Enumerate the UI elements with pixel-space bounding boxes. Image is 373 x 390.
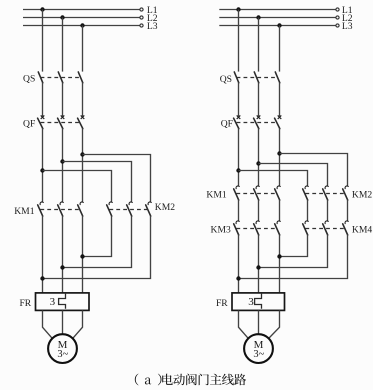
breaker QF (right) pole 2 — [254, 115, 261, 128]
wire right phase C drop to QS — [279, 26, 281, 72]
svg-text:3~: 3~ — [57, 349, 68, 360]
thermal overload relay FR (left) body — [36, 293, 90, 311]
node left L1 supply terminal — [140, 8, 143, 11]
wire left phase A QF to contacts — [42, 128, 44, 202]
mechanical link QS (left) — [41, 77, 81, 79]
contactor KM3 main contact pole 1 — [234, 221, 240, 235]
wire left QS to QF — [82, 82, 84, 116]
wire left phase C QF to contacts — [82, 128, 84, 202]
wire right FR to motor phase B — [258, 310, 260, 334]
wire right between contact rows x=347.5 — [347, 200, 349, 221]
wire left phase A drop to QS — [42, 10, 44, 72]
wire right reverse contact 2 return to phase B — [259, 235, 328, 268]
breaker QF (left) pole 2 — [58, 115, 65, 128]
mechanical link KM3 — [236, 228, 277, 230]
junction right L3 tap — [277, 23, 281, 27]
junction right L1 tap — [236, 7, 240, 11]
svg-text:3~: 3~ — [253, 349, 264, 360]
contactor KM1 main contact pole 2 — [58, 202, 64, 216]
svg-text:KM3: KM3 — [211, 225, 231, 236]
mechanical link KM2 — [305, 193, 345, 195]
wire right phase A QF to contacts — [238, 128, 240, 186]
wire right L1 phase rail — [219, 9, 335, 11]
contactor KM1 main contact pole 1 — [38, 202, 44, 216]
contactor KM2 main contact pole 3 — [146, 202, 152, 216]
wire left branch phase A to reverse contact 1 — [43, 171, 112, 203]
mechanical link KM1 — [40, 209, 80, 211]
svg-text:QS: QS — [220, 74, 232, 85]
junction left L1 tap — [40, 7, 44, 11]
wire left FR to motor phase C — [73, 310, 83, 338]
svg-text:KM4: KM4 — [352, 225, 372, 236]
wire right phase B contacts to FR — [258, 235, 260, 293]
thermal overload relay FR (right) body — [232, 293, 285, 311]
contactor KM2 main contact pole 1 — [107, 202, 113, 216]
mechanical link KM1 — [236, 193, 277, 195]
wire right branch phase C to reverse contact 3 — [280, 154, 348, 187]
contactor KM3 main contact pole 2 — [254, 221, 260, 235]
svg-text:L3: L3 — [147, 21, 158, 32]
contactor KM1 main contact pole 3 — [275, 186, 281, 200]
wire left FR to motor phase A — [43, 310, 53, 338]
svg-text:L3: L3 — [342, 21, 353, 32]
wire right L3 phase rail — [219, 25, 335, 27]
breaker QF (left) pole 3 — [78, 115, 85, 128]
junction left phase B branch — [60, 159, 64, 163]
wire right QS to QF — [258, 82, 260, 116]
svg-text:3: 3 — [248, 296, 254, 308]
breaker QF (left) pole 1 — [38, 115, 45, 128]
contactor KM4 main contact pole 2 — [323, 221, 329, 235]
junction left L2 tap — [60, 15, 64, 19]
junction right phase A crossover — [236, 276, 240, 280]
motor M 3~ (right) — [244, 334, 273, 363]
junction left phase C branch — [80, 152, 84, 156]
wire right reverse contact 3 return to phase A — [239, 235, 348, 279]
contactor KM1 main contact pole 3 — [78, 202, 84, 216]
wire right phase B drop to QS — [258, 18, 260, 72]
svg-text:QF: QF — [221, 119, 233, 130]
wire right branch phase A to reverse contact 1 — [239, 171, 308, 187]
contactor KM2 main contact pole 2 — [127, 202, 133, 216]
breaker QF (right) pole 1 — [234, 115, 241, 128]
wire right phase A contacts to FR — [238, 235, 240, 293]
svg-text:QS: QS — [23, 74, 35, 85]
wire left L3 phase rail — [23, 25, 140, 27]
wire left phase A contacts to FR — [42, 216, 44, 293]
wire left QS to QF — [62, 82, 64, 116]
switch QS (right) pole 2 — [254, 72, 258, 83]
motor M 3~ (left) — [48, 334, 77, 363]
junction left L3 tap — [80, 23, 84, 27]
contactor KM3 main contact pole 3 — [275, 221, 281, 235]
wire left phase B contacts to FR — [62, 216, 64, 293]
junction left phase A branch — [40, 168, 44, 172]
wire right between contact rows x=279.5 — [279, 200, 281, 221]
svg-text:FR: FR — [216, 298, 228, 309]
junction right phase A branch — [236, 168, 240, 172]
contactor KM1 main contact pole 1 — [234, 186, 240, 200]
junction left phase C crossover — [80, 254, 84, 258]
heater element symbol FR (left) — [59, 294, 66, 309]
wire left phase C contacts to FR — [82, 216, 84, 293]
wire right phase C QF to contacts — [279, 128, 281, 186]
wire right reverse contact 1 return to phase C — [280, 235, 308, 257]
wire right phase A drop to QS — [238, 10, 240, 72]
contactor KM4 main contact pole 3 — [343, 221, 349, 235]
switch QS (left) pole 2 — [58, 72, 63, 83]
node left L2 supply terminal — [140, 16, 143, 19]
wire right FR to motor phase C — [269, 310, 280, 338]
caption (a) electric valve main circuit — [135, 374, 246, 386]
wire right between contact rows x=258.5 — [258, 200, 260, 221]
node right L1 supply terminal — [336, 8, 339, 11]
contactor KM2 main contact pole 1 — [303, 186, 309, 200]
svg-text:KM2: KM2 — [155, 202, 175, 213]
mechanical link QF (left) — [41, 122, 81, 124]
wire left reverse contact 3 return to phase A — [43, 216, 151, 279]
switch QS (right) pole 1 — [234, 72, 239, 83]
mechanical link QS (right) — [237, 77, 278, 79]
contactor KM2 main contact pole 3 — [343, 186, 349, 200]
node left L3 supply terminal — [140, 24, 143, 27]
wire left branch phase C to reverse contact 3 — [83, 155, 151, 203]
svg-text:KM2: KM2 — [352, 190, 372, 201]
svg-text:KM1: KM1 — [206, 190, 226, 201]
wire right QS to QF — [279, 82, 281, 116]
wire right FR to motor phase A — [239, 310, 249, 338]
wire right between contact rows x=238.5 — [238, 200, 240, 221]
node right L3 supply terminal — [336, 24, 339, 27]
wire right L2 phase rail — [219, 17, 335, 19]
wire right phase C contacts to FR — [279, 235, 281, 293]
junction right phase B branch — [256, 161, 260, 165]
junction right phase C crossover — [277, 254, 281, 258]
svg-text:QF: QF — [23, 119, 35, 130]
wire left phase B drop to QS — [62, 18, 64, 72]
junction right phase B crossover — [256, 265, 260, 269]
wire left phase C drop to QS — [82, 26, 84, 72]
wire left branch phase B to reverse contact 2 — [63, 162, 132, 203]
wire left phase B QF to contacts — [62, 128, 64, 202]
mechanical link QF (right) — [237, 122, 278, 124]
wire left reverse contact 2 return to phase B — [63, 216, 132, 268]
wire left QS to QF — [42, 82, 44, 116]
contactor KM4 main contact pole 1 — [303, 221, 309, 235]
switch QS (right) pole 3 — [275, 72, 280, 83]
svg-text:FR: FR — [19, 298, 31, 309]
svg-text:3: 3 — [50, 296, 56, 308]
junction right L2 tap — [256, 15, 260, 19]
wire right between contact rows x=307.5 — [307, 200, 309, 221]
wire left reverse contact 1 return to phase C — [83, 216, 112, 257]
contactor KM2 main contact pole 2 — [323, 186, 329, 200]
wire left L2 phase rail — [23, 17, 140, 19]
wire left L1 phase rail — [23, 9, 140, 11]
wire right phase B QF to contacts — [258, 128, 260, 186]
heater element symbol FR (right) — [255, 294, 262, 309]
mechanical link KM4 — [305, 228, 345, 230]
mechanical link KM2 — [109, 209, 148, 211]
junction left phase A crossover — [40, 276, 44, 280]
breaker QF (right) pole 3 — [275, 115, 282, 128]
contactor KM1 main contact pole 2 — [254, 186, 260, 200]
svg-text:KM1: KM1 — [14, 206, 34, 217]
wire right between contact rows x=327.5 — [327, 200, 329, 221]
wire right branch phase B to reverse contact 2 — [259, 164, 328, 187]
switch QS (left) pole 1 — [38, 72, 43, 83]
switch QS (left) pole 3 — [78, 72, 83, 83]
wire right QS to QF — [238, 82, 240, 116]
node right L2 supply terminal — [336, 16, 339, 19]
junction right phase C branch — [277, 151, 281, 155]
wire left FR to motor phase B — [62, 310, 64, 334]
junction left phase B crossover — [60, 265, 64, 269]
